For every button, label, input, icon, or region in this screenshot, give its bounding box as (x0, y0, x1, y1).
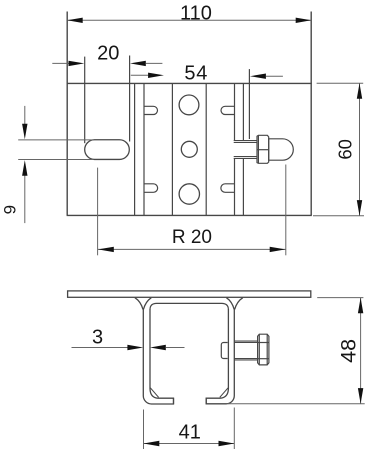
hole circle bottom (179, 184, 199, 204)
top plate (front view) (68, 291, 311, 297)
fold lines left group (130, 56, 144, 216)
dim 110 line and arrows (67, 19, 311, 21)
dim 48 extension lines (228, 298, 365, 404)
dim R20 extension lines (98, 165, 286, 256)
small slot left bottom (144, 184, 158, 193)
bolt shaft (front view) (234, 341, 257, 360)
channel outer contour left shoulder (135, 298, 143, 310)
channel web lines center (172, 83, 206, 215)
channel outer left wall (143, 308, 173, 404)
hex nut (top view) (257, 135, 269, 163)
svg-text:9: 9 (1, 205, 20, 214)
channel inner fillet diagonal right (220, 388, 228, 398)
fold lines right group (broken by bolt) (235, 69, 250, 215)
dim 20 arrows (52, 62, 70, 64)
lip end left (173, 398, 175, 404)
dim 48 line and arrows (360, 298, 362, 404)
dim 60 line and arrows (359, 83, 361, 216)
svg-text:3: 3 (92, 326, 103, 348)
bolt dome head (top view) (269, 139, 294, 160)
hole circle top (179, 95, 199, 115)
svg-text:41: 41 (179, 422, 201, 444)
svg-text:110: 110 (180, 3, 212, 25)
svg-text:54: 54 (184, 63, 208, 85)
fold line at 20 offset (84, 57, 86, 144)
small slot left top (144, 106, 158, 114)
dim 9 line and arrows (24, 106, 26, 223)
channel outer right wall (206, 308, 234, 404)
plate outline (top view 110x60) (67, 12, 312, 216)
channel outer contour right shoulder (235, 298, 243, 310)
small slot right top (221, 106, 234, 114)
channel inner fillet diagonal left (150, 388, 158, 398)
dim 54 left arrow (131, 74, 149, 76)
dim 41 line and arrows (144, 443, 235, 445)
small slot right bottom (221, 184, 235, 193)
hammer head (front view bolt) (221, 343, 227, 359)
svg-text:R 20: R 20 (172, 227, 212, 248)
dim 3 arrows (72, 347, 128, 349)
svg-text:20: 20 (97, 43, 119, 65)
hex head (front view) (258, 334, 269, 365)
lip end right (205, 398, 207, 404)
svg-text:60: 60 (334, 139, 355, 160)
bolt shaft (top view) (234, 141, 257, 159)
svg-text:48: 48 (337, 339, 361, 363)
dim 9 extension lines (18, 140, 93, 160)
dim R20 line and arrows (98, 248, 286, 250)
channel inner top (150, 303, 228, 309)
long slot 9 wide (85, 140, 130, 160)
dim 60 extension lines (313, 83, 364, 216)
dim 54 right arrow (250, 74, 266, 79)
hole circle middle (181, 141, 197, 157)
dim 41 extension lines (144, 408, 235, 450)
